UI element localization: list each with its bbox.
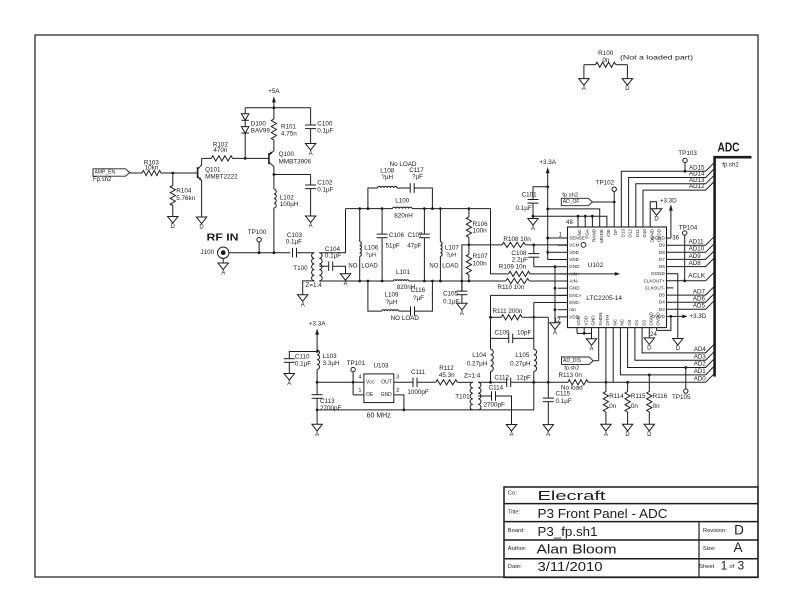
svg-text:12pF: 12pF bbox=[517, 375, 532, 382]
svg-text:0n: 0n bbox=[609, 403, 617, 410]
svg-text:3.3µH: 3.3µH bbox=[323, 360, 340, 367]
svg-text:TP104: TP104 bbox=[679, 225, 698, 232]
svg-text:RAND: RAND bbox=[592, 228, 597, 242]
inductor L102 bbox=[274, 175, 299, 253]
svg-text:R116: R116 bbox=[653, 393, 668, 400]
svg-text:D8: D8 bbox=[659, 250, 665, 255]
inductor L107 bbox=[429, 209, 459, 281]
resistor R116 bbox=[647, 374, 668, 425]
svg-text:D: D bbox=[625, 86, 630, 92]
svg-text:of: of bbox=[729, 564, 734, 570]
svg-text:1000pF: 1000pF bbox=[407, 389, 429, 396]
svg-text:RF IN: RF IN bbox=[207, 231, 239, 243]
bus ADC to fp.sh2 bbox=[713, 140, 751, 377]
wire T100 secondary up to filter top line bbox=[319, 209, 345, 253]
svg-text:No load: No load bbox=[561, 384, 583, 391]
svg-text:TP101: TP101 bbox=[347, 360, 366, 367]
capacitor C103 bbox=[286, 232, 315, 258]
svg-text:D: D bbox=[676, 346, 681, 352]
svg-text:AD3: AD3 bbox=[694, 353, 707, 360]
node R106 R107 junction bbox=[468, 244, 471, 247]
svg-text:D10: D10 bbox=[642, 229, 647, 238]
svg-text:MODE: MODE bbox=[599, 229, 604, 243]
wire T100 primary to ground bbox=[303, 281, 315, 295]
power +3.3A left bbox=[309, 321, 326, 383]
resistor R103 bbox=[142, 160, 161, 176]
svg-text:(Not a loaded part): (Not a loaded part) bbox=[620, 55, 693, 62]
ground A below C114 bbox=[506, 425, 516, 432]
svg-text:C111: C111 bbox=[411, 369, 426, 376]
svg-text:A: A bbox=[604, 432, 608, 438]
svg-text:NC: NC bbox=[612, 318, 617, 325]
wire NC to AD1 bbox=[620, 328, 714, 375]
capacitor C111 bbox=[394, 369, 436, 396]
title block text Date 3/11/2010 Sheet 1 of 3 bbox=[508, 558, 745, 574]
svg-text:D: D bbox=[199, 225, 204, 231]
resistor R112 bbox=[436, 365, 473, 385]
svg-text:D5: D5 bbox=[659, 293, 665, 298]
svg-text:TP105: TP105 bbox=[672, 394, 691, 401]
svg-text:D6: D6 bbox=[659, 264, 665, 269]
wire AD6 bbox=[667, 293, 715, 302]
capacitor C113 bbox=[312, 382, 342, 424]
svg-text:48: 48 bbox=[566, 220, 573, 226]
svg-text:A: A bbox=[301, 302, 305, 308]
wire RF line bbox=[229, 252, 290, 254]
ground D below R104 bbox=[168, 217, 178, 224]
wire OVDD bottom wrap bbox=[657, 316, 671, 330]
resistor R100 (not loaded) bbox=[584, 50, 693, 79]
svg-text:AD11: AD11 bbox=[689, 239, 705, 246]
svg-text:T101: T101 bbox=[455, 393, 470, 400]
wire ENC- drop bbox=[533, 303, 535, 339]
wire ENC- line bbox=[534, 302, 568, 304]
svg-text:LTC2205-14: LTC2205-14 bbox=[586, 295, 622, 302]
svg-text:A: A bbox=[553, 330, 557, 336]
svg-text:?µH: ?µH bbox=[386, 299, 398, 306]
wire D2 to AD4 bbox=[642, 328, 715, 353]
capacitor C115 bbox=[543, 391, 572, 425]
svg-text:0n: 0n bbox=[653, 403, 661, 410]
svg-text:R109 10n: R109 10n bbox=[499, 264, 527, 271]
resistor R107 bbox=[466, 245, 488, 281]
svg-text:NO: NO bbox=[348, 263, 357, 269]
title block text Board P3_fp.sh1 Revision D bbox=[508, 522, 744, 539]
wire C112 output line bbox=[478, 381, 507, 383]
U102 top pin names bbox=[577, 228, 661, 243]
resistor R101 bbox=[271, 108, 297, 147]
transistor Q100 MMBT3906 bbox=[269, 147, 312, 175]
svg-text:D12: D12 bbox=[628, 229, 633, 238]
ground D below R115 bbox=[622, 424, 632, 431]
svg-text:NC: NC bbox=[620, 318, 625, 325]
svg-text:P3 Front Panel - ADC: P3 Front Panel - ADC bbox=[538, 506, 668, 521]
ground A below R114 bbox=[601, 424, 611, 431]
svg-text:0.1µF: 0.1µF bbox=[556, 398, 572, 405]
svg-text:C116: C116 bbox=[411, 287, 426, 294]
svg-text:AD2: AD2 bbox=[694, 361, 707, 368]
resistor R111 bbox=[491, 308, 549, 320]
wire filter top line bbox=[346, 208, 393, 210]
svg-text:AD7: AD7 bbox=[693, 288, 706, 295]
svg-text:D7: D7 bbox=[659, 257, 665, 262]
svg-text:Date:: Date: bbox=[508, 564, 522, 570]
svg-text:?µH: ?µH bbox=[446, 252, 456, 258]
svg-text:470n: 470n bbox=[213, 147, 228, 154]
svg-text:A: A bbox=[582, 86, 586, 92]
svg-text:DGND: DGND bbox=[649, 228, 654, 242]
wire Vcc line to U103 bbox=[317, 381, 364, 383]
svg-text:Elecraft: Elecraft bbox=[538, 488, 607, 503]
wire AD10 from D8 bbox=[667, 243, 715, 252]
wire D12 to AD14 bbox=[629, 169, 715, 228]
svg-text:4.75n: 4.75n bbox=[281, 131, 297, 138]
wire DF column bbox=[613, 202, 615, 227]
ground A left of chip bbox=[550, 323, 560, 330]
svg-text:L109: L109 bbox=[384, 291, 399, 298]
no-load branch L108 C117 bbox=[368, 161, 433, 209]
svg-text:PGA: PGA bbox=[584, 228, 589, 239]
svg-text:Z=1:4: Z=1:4 bbox=[306, 282, 323, 289]
transformer T100 bbox=[293, 253, 322, 289]
node base Q101 bbox=[171, 172, 174, 175]
svg-text:AD12: AD12 bbox=[689, 183, 705, 190]
svg-text:MMBT2222: MMBT2222 bbox=[205, 174, 238, 181]
ground A below T100 bbox=[298, 295, 308, 302]
wire +5A rail bbox=[245, 107, 310, 109]
svg-text:C102: C102 bbox=[317, 180, 333, 187]
resistor R115 bbox=[625, 382, 646, 424]
test point TP103 bbox=[678, 150, 697, 171]
svg-text:3/11/2010: 3/11/2010 bbox=[538, 559, 603, 574]
title block text Title P3 Front Panel - ADC bbox=[508, 506, 668, 521]
wire SENSE to rail bbox=[546, 237, 549, 240]
U102 pin numbers bbox=[554, 220, 680, 338]
svg-text:100n: 100n bbox=[473, 260, 488, 267]
svg-text:ENC-: ENC- bbox=[569, 300, 581, 305]
svg-text:C114: C114 bbox=[489, 385, 504, 392]
svg-text:D0: D0 bbox=[627, 319, 632, 325]
svg-text:L106: L106 bbox=[364, 245, 379, 252]
svg-text:VDD: VDD bbox=[569, 257, 579, 262]
wire DGND right pin to ground bbox=[667, 274, 678, 339]
svg-text:D: D bbox=[647, 432, 652, 438]
svg-text:TP102: TP102 bbox=[596, 180, 615, 187]
svg-text:51pF: 51pF bbox=[386, 243, 401, 250]
svg-text:?µH: ?µH bbox=[366, 252, 376, 258]
capacitor C108 bbox=[511, 245, 539, 267]
inductor L106 bbox=[348, 209, 378, 281]
capacitor C101 bbox=[516, 187, 548, 219]
svg-text:fp.sh2: fp.sh2 bbox=[562, 192, 578, 198]
svg-text:VDD: VDD bbox=[583, 315, 588, 325]
svg-text:C115: C115 bbox=[556, 391, 571, 398]
svg-text:AD1: AD1 bbox=[694, 368, 707, 375]
svg-text:A: A bbox=[460, 311, 464, 317]
inductor L101 bbox=[394, 269, 416, 291]
svg-text:47pF: 47pF bbox=[407, 243, 422, 250]
ground A below chip bbox=[586, 339, 596, 346]
wire AD11 from D9 bbox=[667, 236, 715, 245]
svg-text:AD4: AD4 bbox=[694, 346, 707, 353]
U102 left pin stubs bbox=[558, 238, 568, 317]
svg-text:AD_DIS: AD_DIS bbox=[563, 358, 582, 364]
ground A below C113 bbox=[312, 424, 322, 431]
svg-text:AD5: AD5 bbox=[693, 303, 706, 310]
ground D right of chip bbox=[673, 339, 683, 346]
svg-text:Board:: Board: bbox=[508, 528, 525, 534]
svg-text:36: 36 bbox=[672, 235, 679, 241]
no-load branch L109 C116 bbox=[368, 281, 433, 322]
wire DITH column bbox=[605, 328, 607, 383]
svg-text:100n: 100n bbox=[473, 228, 488, 235]
wire AD0 net line bbox=[511, 381, 568, 383]
svg-text:1: 1 bbox=[358, 388, 361, 394]
transformer T101 bbox=[455, 372, 481, 409]
svg-text:DGND: DGND bbox=[651, 271, 665, 276]
wire bbox=[130, 172, 142, 174]
svg-text:Title:: Title: bbox=[508, 509, 521, 515]
capacitor C106 bbox=[377, 209, 405, 281]
capacitor C109 bbox=[491, 330, 534, 344]
svg-text:+3.3D: +3.3D bbox=[660, 197, 677, 204]
svg-text:Fp.sh2: Fp.sh2 bbox=[93, 177, 112, 183]
svg-text:T100: T100 bbox=[293, 265, 308, 272]
svg-text:D2: D2 bbox=[641, 319, 646, 325]
ground A below C105 bbox=[457, 303, 467, 310]
wire ENC+ drop bbox=[490, 295, 492, 338]
wire D1 to AD3 bbox=[635, 328, 715, 361]
svg-text:Q100: Q100 bbox=[279, 151, 295, 158]
svg-text:GND: GND bbox=[569, 264, 580, 269]
svg-text:GND: GND bbox=[569, 286, 580, 291]
svg-text:VDD: VDD bbox=[569, 250, 579, 255]
resistor R113 bbox=[559, 372, 589, 391]
svg-text:L103: L103 bbox=[323, 353, 338, 360]
svg-text:ran: ran bbox=[569, 307, 576, 312]
pin 36 stub and +3.3D top bbox=[660, 197, 677, 238]
svg-text:GND: GND bbox=[591, 315, 596, 326]
svg-text:AD10: AD10 bbox=[689, 246, 705, 253]
resistor R108 bbox=[469, 236, 568, 248]
svg-text:C109: C109 bbox=[495, 330, 511, 337]
svg-text:L107: L107 bbox=[445, 245, 460, 252]
svg-text:MMBT3906: MMBT3906 bbox=[279, 159, 312, 166]
wire collector to C102 bbox=[274, 174, 311, 176]
svg-text:C112: C112 bbox=[494, 375, 509, 382]
svg-text:10pF: 10pF bbox=[517, 330, 532, 337]
svg-text:A: A bbox=[546, 432, 550, 438]
wire VDD VDD GND pins to ground A bbox=[577, 328, 592, 339]
svg-text:0n: 0n bbox=[631, 403, 639, 410]
ground D below R100 right bbox=[622, 79, 632, 86]
wire D11 to AD13 bbox=[636, 175, 715, 227]
connector J100 bbox=[201, 247, 229, 258]
resistor R104 bbox=[170, 173, 196, 217]
ground A below J100 bbox=[218, 258, 228, 276]
svg-text:TP103: TP103 bbox=[678, 150, 697, 157]
svg-text:+3.3A: +3.3A bbox=[539, 159, 556, 166]
svg-text:?µH: ?µH bbox=[381, 174, 393, 181]
net labels AD15-AD12 bbox=[689, 164, 705, 190]
svg-text:?µF: ?µF bbox=[412, 174, 423, 181]
U102 left pin names bbox=[569, 236, 585, 320]
svg-text:SHDN: SHDN bbox=[598, 313, 603, 326]
capacitor C112 bbox=[494, 375, 531, 388]
ground D below DGND pin bbox=[644, 328, 654, 352]
svg-text:NO: NO bbox=[429, 263, 438, 269]
svg-text:AMP_EN: AMP_EN bbox=[95, 170, 116, 176]
svg-text:0.27µH: 0.27µH bbox=[467, 361, 488, 368]
svg-text:C101: C101 bbox=[522, 191, 538, 198]
svg-text:5.76kn: 5.76kn bbox=[176, 195, 195, 202]
test point TP105 bbox=[672, 366, 691, 401]
resistor R106 bbox=[466, 209, 488, 245]
wire GND pins to ground column bbox=[534, 267, 558, 323]
capacitor C110 bbox=[284, 352, 317, 374]
svg-text:AD_OF: AD_OF bbox=[563, 199, 580, 205]
capacitor C100 bbox=[305, 108, 334, 144]
svg-text:A: A bbox=[315, 432, 319, 438]
resistor R102 bbox=[202, 142, 269, 161]
wire AD7 bbox=[667, 286, 715, 295]
ground A below C101 bbox=[528, 219, 538, 226]
svg-text:AD8: AD8 bbox=[689, 260, 702, 267]
test point TP101 bbox=[347, 360, 366, 395]
transistor Q101 MMBT2222 bbox=[198, 158, 239, 217]
resistor R114 bbox=[603, 382, 624, 424]
svg-text:C107: C107 bbox=[408, 232, 424, 239]
svg-text:U102: U102 bbox=[588, 262, 604, 269]
wire ENC+ line bbox=[491, 294, 568, 296]
stub CLKOUT- bbox=[667, 287, 674, 289]
svg-text:R111 200n: R111 200n bbox=[493, 308, 523, 315]
capacitor C114 bbox=[478, 385, 511, 425]
svg-text:3: 3 bbox=[737, 558, 744, 572]
svg-text:GND: GND bbox=[381, 392, 393, 398]
svg-text:60 MHz: 60 MHz bbox=[367, 412, 392, 419]
svg-text:fp.sh2: fp.sh2 bbox=[722, 163, 739, 169]
svg-text:820nH: 820nH bbox=[394, 212, 413, 219]
svg-text:DITH: DITH bbox=[605, 315, 610, 326]
svg-text:OE: OE bbox=[366, 392, 374, 398]
ground A below C104 bbox=[340, 274, 350, 281]
svg-text:C105: C105 bbox=[443, 291, 459, 298]
wire NC PGA RAND OE ground tie bbox=[533, 216, 607, 227]
ground D below Q101 bbox=[196, 217, 206, 224]
diode D100 BAV99 bbox=[241, 108, 270, 159]
svg-text:R114: R114 bbox=[609, 393, 624, 400]
svg-text:2700pF: 2700pF bbox=[484, 402, 506, 409]
svg-text:D11: D11 bbox=[635, 229, 640, 238]
inductor L103 bbox=[317, 350, 340, 369]
capacitor C105 bbox=[443, 281, 467, 305]
wire AD9 from D7 bbox=[667, 250, 715, 259]
svg-text:NC: NC bbox=[577, 228, 582, 235]
wire AIN+ via R109 bbox=[491, 209, 568, 277]
IC U102 LTC2205-14 bbox=[568, 227, 667, 328]
svg-text:ACLK: ACLK bbox=[688, 273, 706, 280]
svg-text:0.1µF: 0.1µF bbox=[295, 360, 311, 367]
svg-text:24: 24 bbox=[650, 332, 657, 338]
ground D below R116 bbox=[644, 424, 654, 431]
U102 bottom pin names bbox=[576, 311, 661, 325]
svg-text:Size:: Size: bbox=[703, 546, 716, 552]
svg-text:A: A bbox=[733, 540, 742, 555]
capacitor C107 bbox=[407, 209, 430, 281]
svg-text:NO LOAD: NO LOAD bbox=[391, 315, 420, 322]
svg-text:A: A bbox=[589, 346, 593, 352]
svg-text:LOAD: LOAD bbox=[442, 263, 459, 269]
power +3.3A rail bbox=[539, 159, 556, 260]
svg-text:100µH: 100µH bbox=[280, 201, 299, 208]
svg-text:TP100: TP100 bbox=[248, 229, 267, 236]
wire riser C112 line to bottom rail bbox=[533, 382, 535, 410]
svg-text:Z=1:4: Z=1:4 bbox=[464, 372, 481, 379]
svg-text:L100: L100 bbox=[395, 198, 410, 205]
svg-text:3: 3 bbox=[396, 375, 399, 381]
ground A below C115 bbox=[543, 425, 553, 432]
wire AD0 diagonal to bus bbox=[706, 373, 715, 382]
svg-text:10kn: 10kn bbox=[145, 165, 159, 172]
svg-text:?µF: ?µF bbox=[413, 295, 424, 302]
ground A below C100 bbox=[305, 144, 315, 151]
wire oscillator bottom rail bbox=[317, 409, 534, 411]
U102 right pin names bbox=[643, 236, 665, 319]
ground A below C102 bbox=[305, 216, 315, 223]
ground A below C110 bbox=[284, 374, 294, 381]
title block text Co Elecraft bbox=[508, 488, 606, 503]
svg-text:LOAD: LOAD bbox=[361, 263, 378, 269]
wire D13 to AD15 bbox=[621, 162, 714, 227]
net flag AD_OF bbox=[561, 192, 614, 205]
svg-text:AD6: AD6 bbox=[693, 295, 706, 302]
svg-text:A: A bbox=[531, 226, 535, 232]
capacitor C104 bbox=[319, 246, 345, 274]
svg-text:+3.3A: +3.3A bbox=[309, 321, 326, 328]
svg-text:A: A bbox=[509, 432, 513, 438]
svg-text:0.27µH: 0.27µH bbox=[510, 361, 531, 368]
svg-text:OVDD: OVDD bbox=[656, 312, 661, 326]
svg-text:R113 0n: R113 0n bbox=[559, 372, 583, 379]
svg-text:BAV99: BAV99 bbox=[251, 128, 271, 135]
svg-text:L101: L101 bbox=[396, 269, 411, 276]
svg-text:CLKOUT+: CLKOUT+ bbox=[643, 278, 665, 283]
svg-text:AIN-: AIN- bbox=[569, 279, 579, 284]
title block bbox=[504, 487, 758, 577]
svg-text:D: D bbox=[647, 346, 652, 352]
svg-text:R110 10n: R110 10n bbox=[497, 284, 524, 291]
svg-text:4: 4 bbox=[358, 375, 361, 381]
svg-text:45.3n: 45.3n bbox=[439, 372, 455, 379]
svg-text:A: A bbox=[343, 281, 347, 287]
svg-text:A: A bbox=[309, 151, 313, 157]
svg-text:DF: DF bbox=[613, 229, 618, 235]
svg-text:ENC+: ENC+ bbox=[569, 293, 582, 298]
net flag AD_DIS to SHDN bbox=[562, 328, 599, 372]
svg-text:OUT: OUT bbox=[381, 379, 392, 385]
svg-text:A: A bbox=[287, 381, 291, 387]
svg-text:Co:: Co: bbox=[508, 490, 517, 496]
node D100/R102 bbox=[244, 157, 247, 160]
wire C115 column bbox=[547, 317, 549, 398]
wire MODE tie to rail bbox=[548, 209, 600, 227]
svg-text:0.1µF: 0.1µF bbox=[317, 187, 333, 194]
svg-text:Sheet: Sheet bbox=[699, 564, 715, 570]
wire filter bottom line bbox=[319, 280, 393, 282]
svg-text:AD0: AD0 bbox=[694, 376, 707, 383]
svg-text:+3.3D: +3.3D bbox=[690, 313, 707, 320]
